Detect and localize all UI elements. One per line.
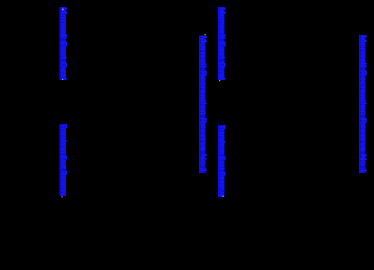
- svg-text:Morwell East Oval: Morwell East Oval: [59, 7, 68, 80]
- svg-text:Morwell East Oval: Morwell East Oval: [218, 7, 227, 80]
- vertical link column D: [359, 35, 368, 174]
- vertical link column C segment 1: [218, 7, 227, 80]
- svg-text:Traralson East Reserve: Traralson East Reserve: [59, 124, 68, 196]
- svg-text:.: .: [217, 80, 226, 82]
- svg-text:Morwell Recreation Reserve No: Morwell Recreation Reserve No 1: [359, 35, 368, 174]
- svg-text:Morwell Recreation Reserve No: Morwell Recreation Reserve No 1: [199, 36, 208, 174]
- vertical link column B: [199, 36, 208, 174]
- svg-text:.: .: [60, 78, 69, 80]
- svg-text:.: .: [60, 196, 69, 198]
- svg-text:.: .: [202, 34, 211, 36]
- svg-text:Traralson East Reserve: Traralson East Reserve: [218, 125, 227, 197]
- svg-text:.: .: [221, 195, 230, 197]
- vertical link column C segment 2: [218, 125, 227, 197]
- vertical link column A segment 1: [59, 7, 68, 80]
- vertical link column A segment 2: [59, 124, 68, 196]
- light speck near top of column A: [62, 9, 64, 11]
